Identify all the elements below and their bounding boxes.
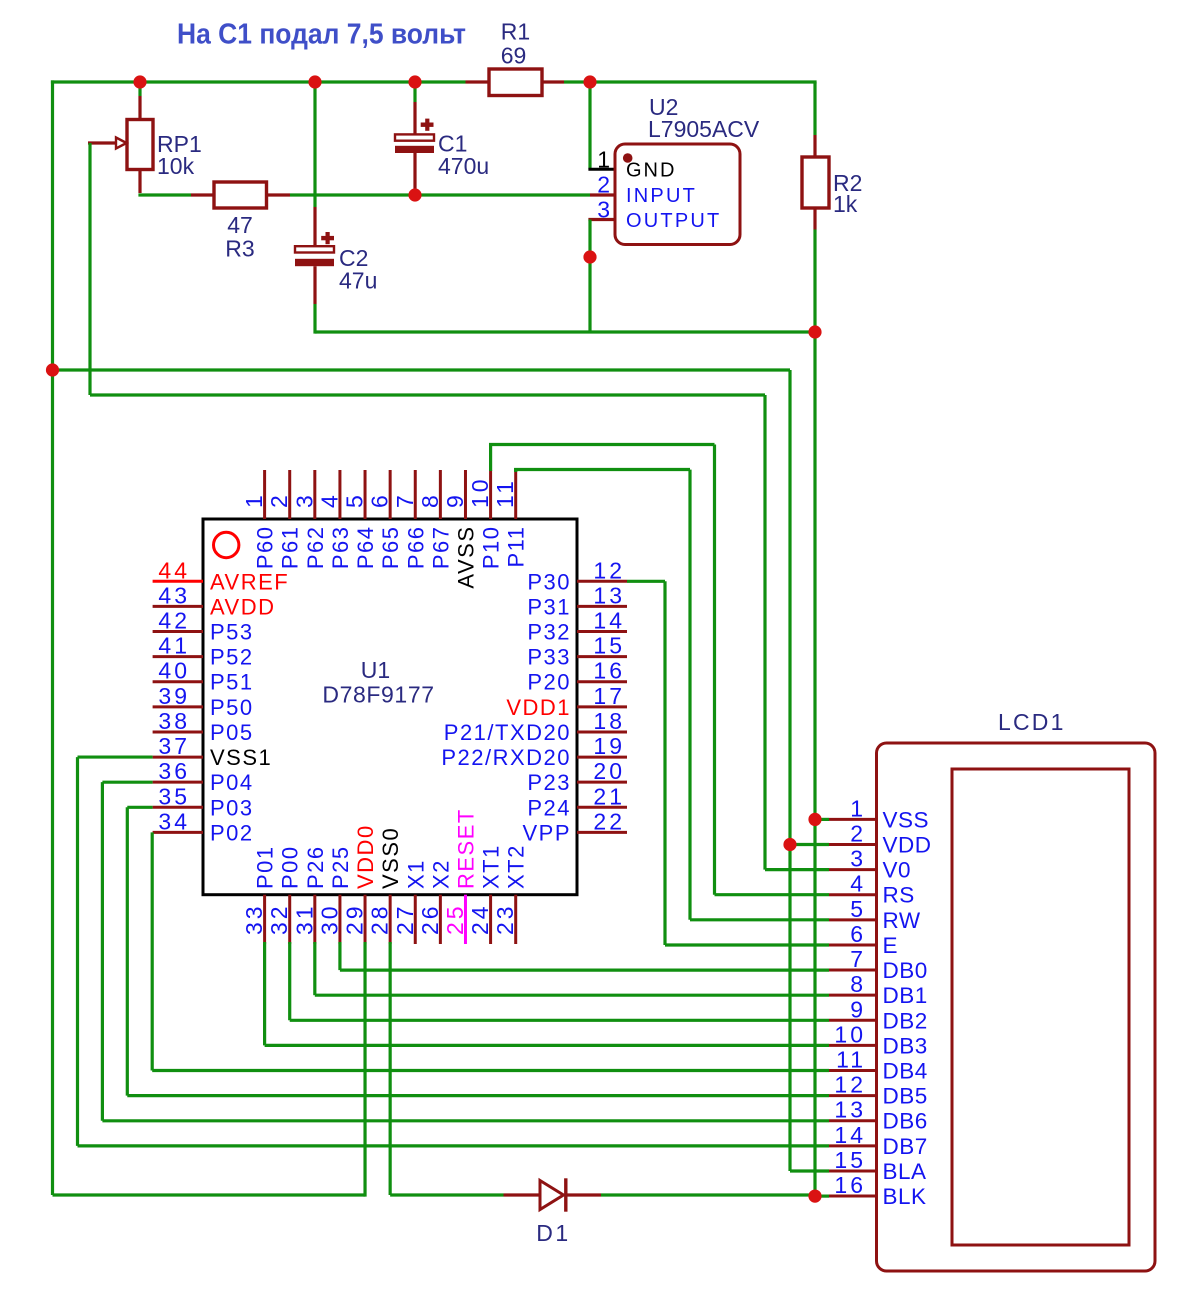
svg-text:31: 31: [291, 903, 317, 935]
svg-text:14: 14: [834, 1122, 866, 1148]
svg-text:47u: 47u: [339, 268, 377, 294]
svg-text:12: 12: [834, 1072, 866, 1098]
svg-text:P00: P00: [278, 845, 303, 889]
svg-text:3: 3: [291, 492, 317, 508]
svg-text:XT2: XT2: [504, 844, 529, 889]
svg-text:DB7: DB7: [883, 1134, 928, 1159]
svg-text:P10: P10: [479, 526, 504, 570]
svg-text:BLK: BLK: [883, 1184, 927, 1209]
svg-text:DB0: DB0: [883, 958, 928, 983]
svg-text:16: 16: [593, 658, 625, 684]
svg-text:P20: P20: [527, 670, 571, 695]
svg-text:P64: P64: [353, 526, 378, 570]
svg-text:P50: P50: [210, 695, 254, 720]
svg-text:42: 42: [158, 608, 190, 634]
svg-text:9: 9: [850, 996, 866, 1022]
svg-text:39: 39: [158, 683, 190, 709]
svg-text:47: 47: [227, 212, 253, 238]
svg-text:LCD1: LCD1: [998, 709, 1066, 735]
svg-text:L7905ACV: L7905ACV: [648, 116, 760, 142]
svg-text:7: 7: [850, 946, 866, 972]
svg-text:P52: P52: [210, 645, 254, 670]
svg-text:E: E: [883, 933, 899, 958]
svg-text:24: 24: [467, 903, 493, 935]
svg-text:DB3: DB3: [883, 1033, 928, 1058]
svg-text:41: 41: [158, 633, 190, 659]
svg-text:44: 44: [158, 557, 190, 583]
svg-text:12: 12: [593, 557, 625, 583]
svg-text:5: 5: [850, 896, 866, 922]
svg-text:33: 33: [241, 903, 267, 935]
svg-text:OUTPUT: OUTPUT: [626, 210, 721, 232]
svg-text:4: 4: [316, 492, 342, 508]
svg-text:RW: RW: [883, 908, 921, 933]
svg-text:AVSS: AVSS: [453, 526, 478, 589]
svg-text:4: 4: [850, 871, 866, 897]
svg-text:BLA: BLA: [883, 1159, 927, 1184]
svg-text:20: 20: [593, 758, 625, 784]
svg-text:VDD1: VDD1: [506, 695, 571, 720]
svg-text:10: 10: [467, 476, 493, 508]
svg-text:34: 34: [158, 808, 190, 834]
svg-text:P23: P23: [527, 770, 571, 795]
svg-text:11: 11: [492, 478, 518, 508]
svg-text:P21/TXD20: P21/TXD20: [444, 720, 571, 745]
svg-text:30: 30: [316, 903, 342, 935]
svg-text:P51: P51: [210, 670, 254, 695]
svg-text:VSS1: VSS1: [210, 745, 272, 770]
svg-text:AVDD: AVDD: [210, 594, 276, 619]
svg-text:P53: P53: [210, 620, 254, 645]
svg-text:X1: X1: [403, 859, 428, 889]
svg-text:P03: P03: [210, 795, 254, 820]
svg-text:DB4: DB4: [883, 1059, 928, 1084]
svg-text:P66: P66: [403, 526, 428, 570]
svg-text:P04: P04: [210, 770, 254, 795]
svg-text:GND: GND: [626, 160, 676, 182]
svg-text:17: 17: [593, 683, 625, 709]
svg-text:R1: R1: [501, 19, 530, 45]
svg-text:1: 1: [597, 146, 613, 172]
svg-text:28: 28: [367, 903, 393, 935]
svg-text:P32: P32: [527, 620, 571, 645]
svg-text:10: 10: [834, 1021, 866, 1047]
svg-text:7: 7: [392, 492, 418, 508]
svg-text:V0: V0: [883, 858, 912, 883]
svg-text:P61: P61: [278, 526, 303, 570]
svg-text:18: 18: [593, 708, 625, 734]
svg-text:9: 9: [442, 492, 468, 508]
svg-text:D1: D1: [536, 1220, 570, 1246]
svg-text:21: 21: [593, 783, 625, 809]
svg-text:U1: U1: [361, 657, 390, 683]
svg-text:15: 15: [593, 633, 625, 659]
svg-text:DB6: DB6: [883, 1109, 928, 1134]
svg-text:R3: R3: [225, 236, 254, 262]
svg-text:36: 36: [158, 758, 190, 784]
svg-text:P65: P65: [378, 526, 403, 570]
svg-text:P26: P26: [303, 845, 328, 889]
svg-text:P11: P11: [504, 526, 529, 568]
svg-text:INPUT: INPUT: [626, 185, 697, 207]
svg-text:P22/RXD20: P22/RXD20: [441, 745, 571, 770]
svg-text:13: 13: [834, 1097, 866, 1123]
svg-text:P01: P01: [253, 845, 278, 889]
svg-text:P02: P02: [210, 820, 254, 845]
svg-text:1: 1: [850, 795, 866, 821]
svg-text:VSS0: VSS0: [378, 827, 403, 889]
svg-text:VPP: VPP: [522, 820, 571, 845]
svg-text:10k: 10k: [157, 153, 195, 179]
svg-text:VDD0: VDD0: [353, 824, 378, 889]
svg-text:2: 2: [597, 172, 613, 198]
svg-text:3: 3: [850, 846, 866, 872]
svg-text:43: 43: [158, 582, 190, 608]
svg-text:XT1: XT1: [479, 844, 504, 889]
svg-text:11: 11: [836, 1047, 866, 1073]
svg-text:DB2: DB2: [883, 1008, 928, 1033]
svg-text:37: 37: [158, 733, 190, 759]
svg-text:35: 35: [158, 783, 190, 809]
svg-text:P25: P25: [328, 845, 353, 889]
svg-text:RS: RS: [883, 883, 915, 908]
svg-text:AVREF: AVREF: [210, 569, 289, 594]
svg-text:RESET: RESET: [453, 808, 478, 889]
svg-text:16: 16: [834, 1172, 866, 1198]
svg-text:P60: P60: [253, 526, 278, 570]
svg-text:8: 8: [417, 492, 443, 508]
svg-text:29: 29: [342, 903, 368, 935]
svg-text:6: 6: [850, 921, 866, 947]
svg-text:26: 26: [417, 903, 443, 935]
svg-text:2: 2: [266, 492, 292, 508]
svg-text:2: 2: [850, 821, 866, 847]
svg-text:VDD: VDD: [883, 833, 932, 858]
svg-text:P63: P63: [328, 526, 353, 570]
svg-text:13: 13: [593, 582, 625, 608]
svg-text:1k: 1k: [833, 191, 858, 217]
svg-text:23: 23: [492, 903, 518, 935]
svg-text:15: 15: [834, 1147, 866, 1173]
svg-text:8: 8: [850, 971, 866, 997]
svg-text:32: 32: [266, 903, 292, 935]
svg-text:P24: P24: [527, 795, 571, 820]
svg-text:27: 27: [392, 903, 418, 935]
svg-text:P33: P33: [527, 645, 571, 670]
svg-text:6: 6: [367, 492, 393, 508]
svg-text:25: 25: [442, 903, 468, 935]
svg-text:DB5: DB5: [883, 1084, 928, 1109]
svg-text:14: 14: [593, 608, 625, 634]
svg-text:VSS: VSS: [883, 807, 930, 832]
svg-text:19: 19: [593, 733, 625, 759]
svg-text:На C1 подал 7,5 вольт: На C1 подал 7,5 вольт: [177, 19, 466, 51]
svg-text:38: 38: [158, 708, 190, 734]
svg-text:5: 5: [342, 492, 368, 508]
svg-text:P62: P62: [303, 526, 328, 570]
svg-text:DB1: DB1: [883, 983, 928, 1008]
svg-text:40: 40: [158, 658, 190, 684]
svg-text:D78F9177: D78F9177: [322, 682, 434, 708]
svg-text:470u: 470u: [438, 153, 489, 179]
svg-text:3: 3: [597, 197, 613, 223]
svg-text:P31: P31: [527, 594, 571, 619]
svg-text:69: 69: [501, 43, 527, 69]
svg-text:P67: P67: [428, 526, 453, 570]
svg-text:1: 1: [241, 492, 267, 508]
svg-text:P30: P30: [527, 569, 571, 594]
svg-text:22: 22: [593, 808, 625, 834]
svg-text:X2: X2: [428, 859, 453, 889]
svg-text:P05: P05: [210, 720, 254, 745]
